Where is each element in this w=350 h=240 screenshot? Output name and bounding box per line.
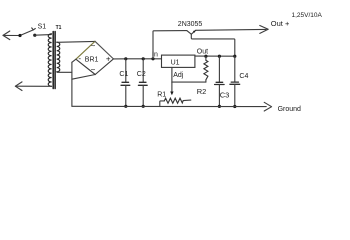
svg-text:S1: S1 [38,24,47,31]
wire U1 Out [195,55,235,57]
node C1 tap [124,57,127,60]
resistor R2 [204,56,208,82]
svg-text:C3: C3 [220,91,230,100]
svg-text:U1: U1 [171,59,180,66]
svg-text:1,25V/10A: 1,25V/10A [292,12,323,19]
svg-text:T1: T1 [56,25,62,31]
node C2 ground [142,105,145,108]
potentiometer R1 wiper arrow [170,82,173,95]
wire primary bottom to AC arrow [16,85,52,87]
bridge rectifier BR1 diamond edge top-left [76,41,95,59]
wire U1 Adj down [171,67,173,82]
wire bridge AC2 to vertical [72,75,95,80]
wire emitter to output arrow [196,28,266,31]
wire left vertical to ground [71,62,73,106]
transformer T1 core [53,32,55,89]
bridge rectifier BR1 diamond edge top-right [95,41,113,59]
svg-text:Adj: Adj [173,72,184,79]
transformer T1 primary winding [48,34,51,87]
svg-text:Ground: Ground [278,106,301,113]
svg-text:-: - [78,54,81,63]
svg-text:BR1: BR1 [85,57,99,64]
node output junction [233,55,236,58]
node C2 tap [142,57,145,60]
node R2 tap [204,55,207,58]
regulator U1 box [162,55,195,67]
transistor Q1 2N3055 [187,30,235,56]
svg-text:R1: R1 [157,92,166,99]
node C3 tap [218,55,221,58]
wire bridge minus to vertical [72,59,76,62]
svg-text:Out +: Out + [271,19,290,28]
wire secondary top to bridge [57,40,95,43]
svg-text:C1: C1 [119,71,128,78]
wire switch to transformer primary [35,34,51,37]
AC input arrow (bottom) [15,82,22,91]
capacitor C2 [138,59,147,107]
node C1 ground [124,105,127,108]
svg-text:C4: C4 [239,73,248,80]
ground rail [72,105,266,107]
svg-text:2N3055: 2N3055 [178,21,203,28]
node: switch left contact [18,34,21,37]
wire Adj to R2 bottom [172,81,206,83]
svg-text:+: + [106,55,111,64]
capacitor C4 [230,56,240,106]
bridge rectifier BR1 diamond edge bottom-left [76,59,95,74]
ground arrow [264,102,271,111]
svg-text:Out: Out [197,49,208,56]
AC input arrow (top) [3,31,20,40]
capacitor C3 [215,56,225,106]
switch S1 [20,28,35,36]
potentiometer R1 [160,98,191,106]
svg-text:R2: R2 [197,87,207,96]
node C4 ground [233,105,236,108]
transformer T1 secondary winding [57,42,60,72]
wire bridge plus to U1 In rail [113,58,161,60]
bridge rectifier BR1 diamond edge bottom-right [95,59,113,75]
node: switch right contact [33,34,36,37]
wire riser to top rail [153,31,187,59]
svg-text:C2: C2 [137,71,146,78]
node C3 ground [218,105,221,108]
node riser tap [151,57,154,60]
output arrow Out+ [260,26,268,34]
svg-text:In: In [152,51,158,58]
wire secondary bottom [57,71,72,73]
capacitor C1 [121,59,130,107]
svg-text:~: ~ [91,66,96,75]
svg-text:~: ~ [91,42,96,51]
